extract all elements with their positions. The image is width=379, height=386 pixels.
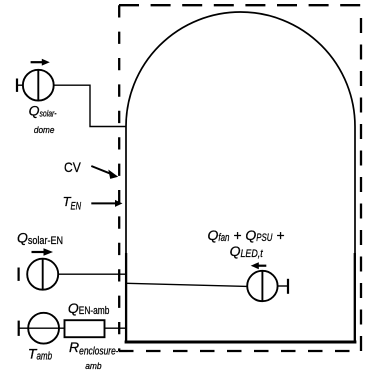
svg-text:dome: dome	[34, 125, 55, 136]
svg-text:Qsolar-EN: Qsolar-EN	[17, 230, 63, 247]
svg-text:QLED,t: QLED,t	[230, 243, 264, 260]
svg-text:Tamb: Tamb	[28, 346, 52, 363]
svg-text:amb: amb	[85, 361, 101, 372]
svg-text:Qsolar-: Qsolar-	[29, 102, 57, 119]
svg-text:Qfan + QPSU +: Qfan + QPSU +	[208, 227, 285, 244]
svg-text:QEN-amb: QEN-amb	[68, 300, 109, 317]
svg-text:CV: CV	[64, 159, 81, 175]
svg-text:Renclosure-: Renclosure-	[69, 339, 119, 357]
svg-text:TEN: TEN	[63, 194, 81, 212]
